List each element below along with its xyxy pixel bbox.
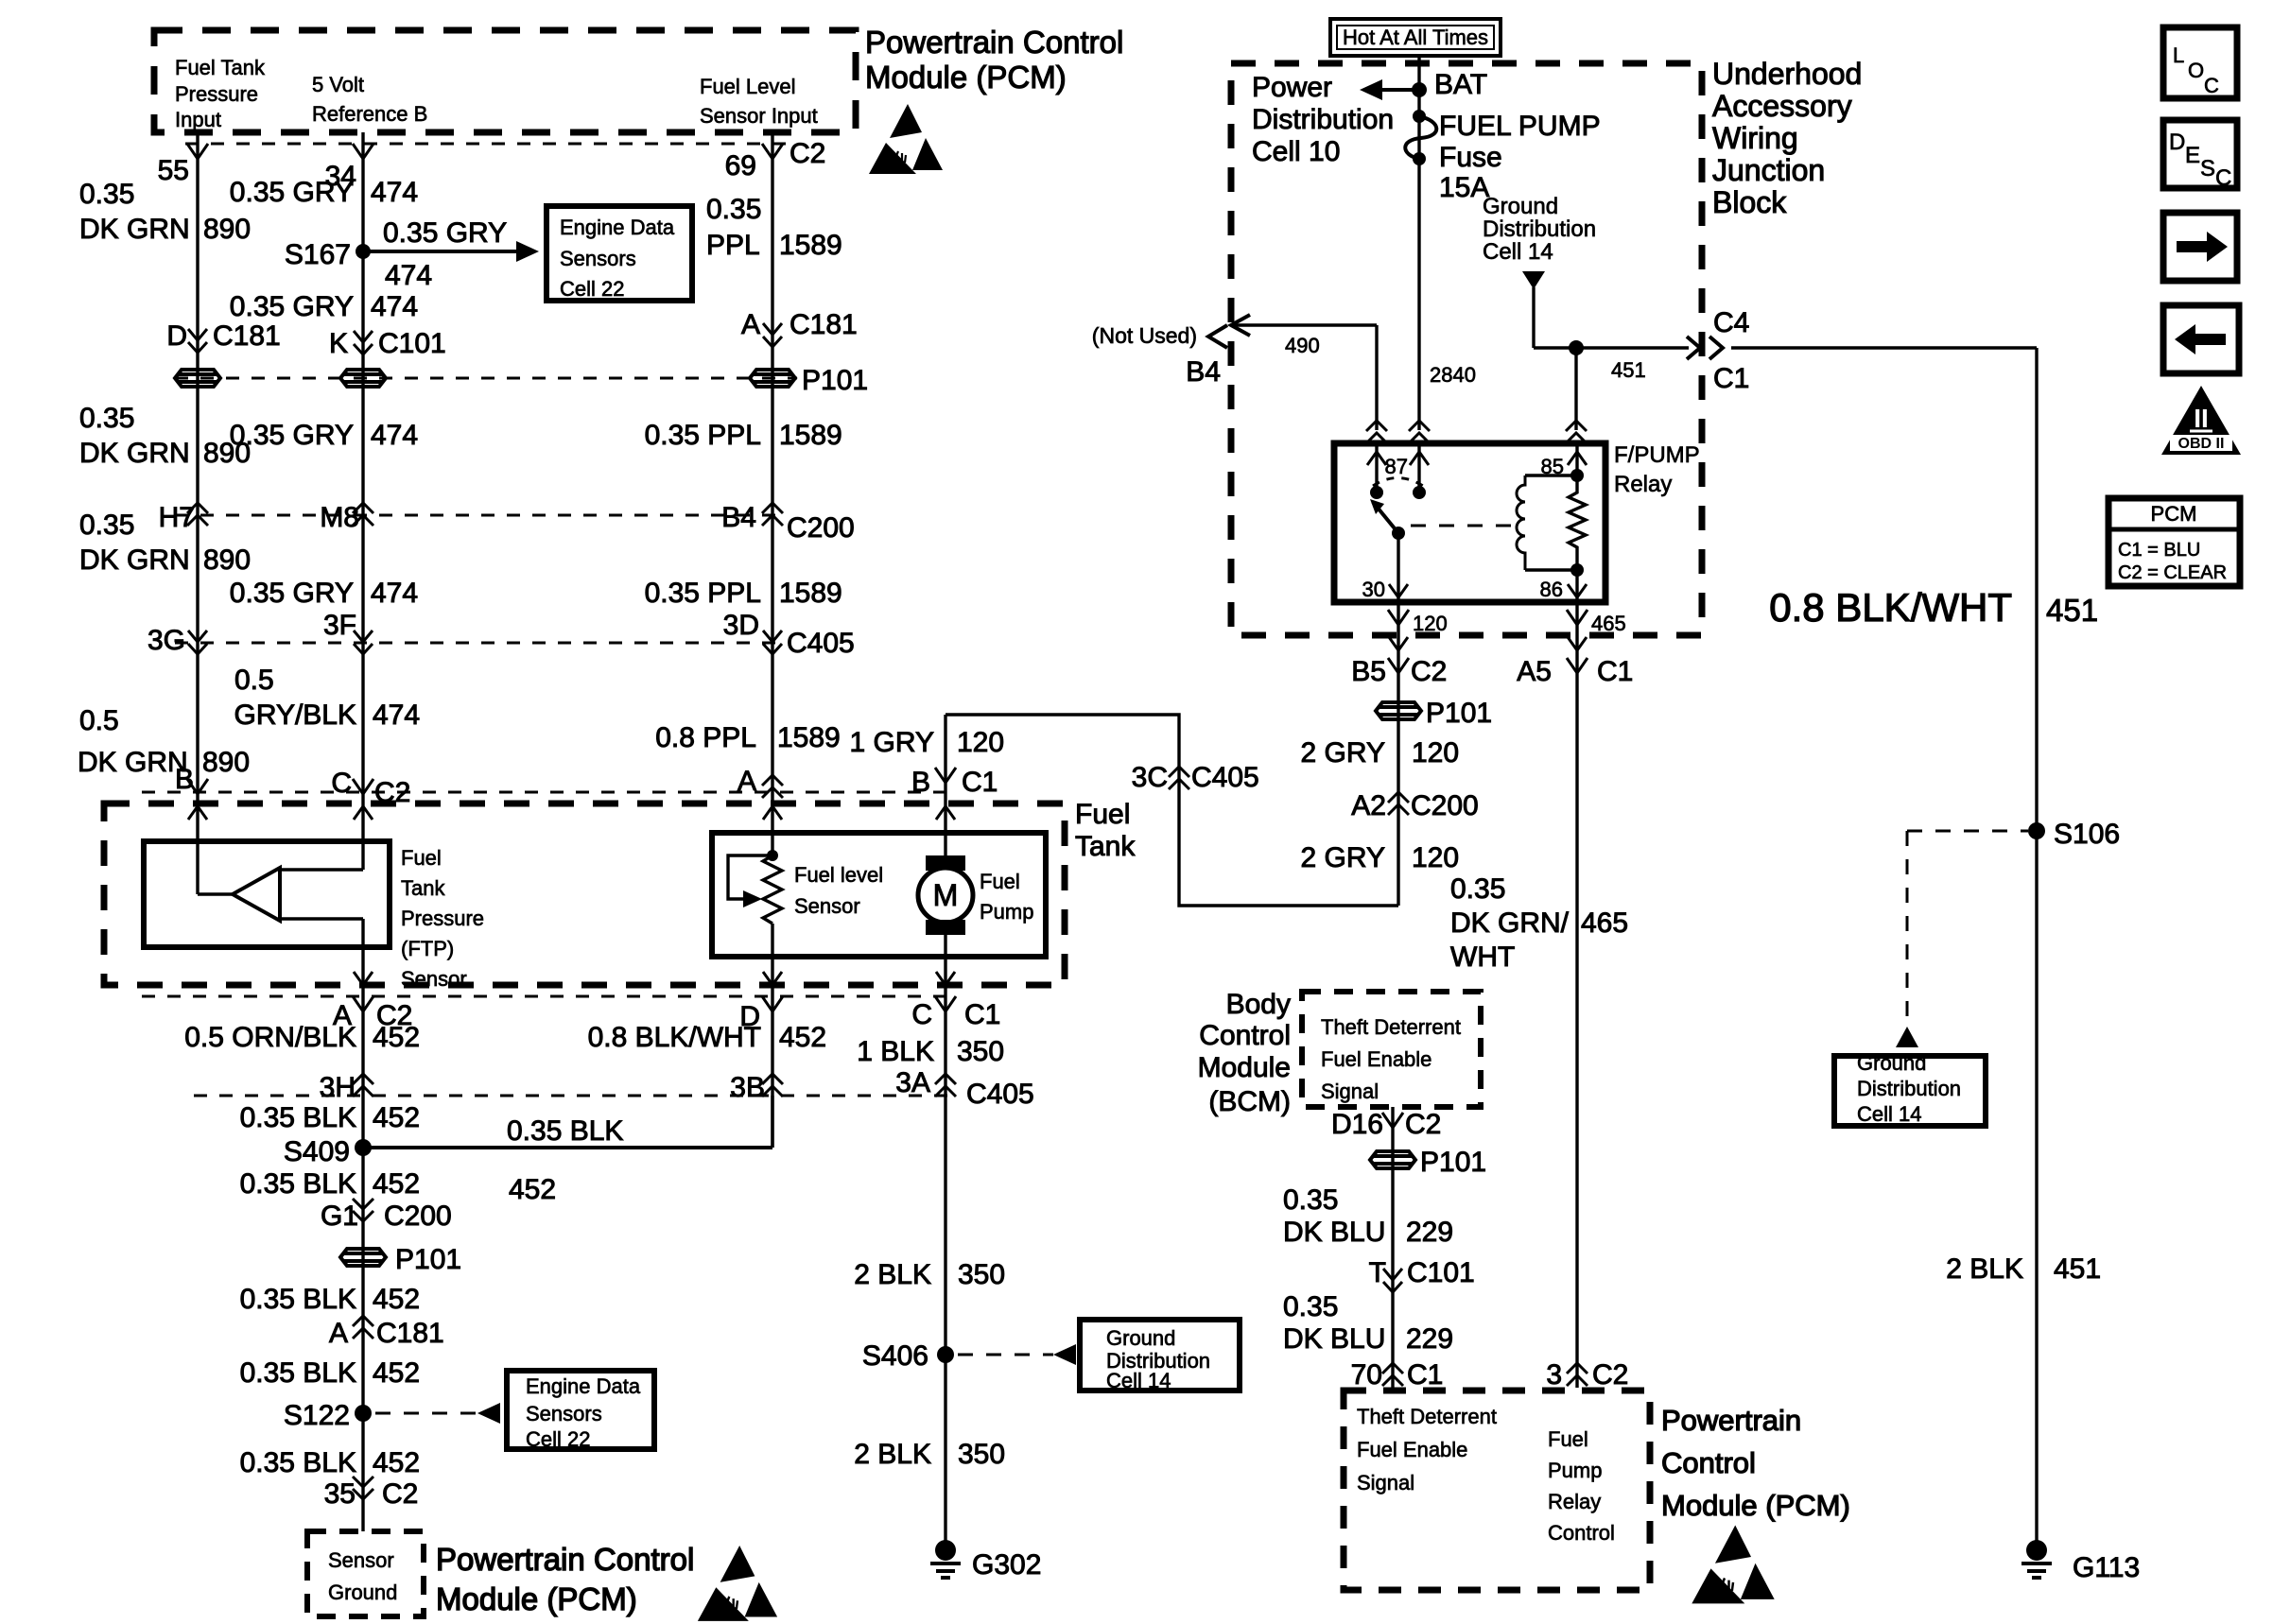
pin B C1 (pump) <box>935 768 956 783</box>
pin A2 C200 <box>1388 792 1409 815</box>
relay contact dashed arc <box>1373 478 1423 487</box>
pin 3H <box>353 1074 373 1097</box>
svg-text:Engine Data: Engine Data <box>526 1374 641 1398</box>
svg-text:M8: M8 <box>320 502 359 533</box>
svg-text:GRY/BLK: GRY/BLK <box>234 700 356 731</box>
svg-text:Engine Data: Engine Data <box>560 216 675 239</box>
svg-text:B4: B4 <box>1186 356 1221 388</box>
svg-text:350: 350 <box>957 1036 1004 1067</box>
svg-text:452: 452 <box>373 1357 420 1389</box>
svg-text:C2: C2 <box>1405 1109 1441 1140</box>
svg-text:0.5 ORN/BLK: 0.5 ORN/BLK <box>184 1022 356 1053</box>
svg-text:C101: C101 <box>378 328 446 359</box>
FUEL PUMP fuse <box>1413 110 1426 123</box>
splice S106 <box>2028 822 2045 839</box>
svg-text:C181: C181 <box>213 320 281 352</box>
svg-text:T: T <box>1369 1257 1386 1288</box>
svg-text:85: 85 <box>1541 455 1564 478</box>
svg-text:Pressure: Pressure <box>401 907 484 930</box>
svg-text:2 BLK: 2 BLK <box>1946 1253 2023 1285</box>
Fuel Tank dashed box <box>104 803 1065 985</box>
svg-text:C1: C1 <box>1713 363 1749 394</box>
svg-text:451: 451 <box>2046 593 2098 628</box>
splice S409 branch <box>363 1146 772 1149</box>
svg-text:55: 55 <box>158 155 189 186</box>
svg-text:87: 87 <box>1385 455 1408 478</box>
BCM Theft Deterrent dashed box <box>1302 992 1481 1107</box>
FTP sensor box <box>144 841 390 947</box>
svg-text:Control: Control <box>1661 1446 1756 1479</box>
pin C C1 <box>935 996 956 1011</box>
wire 474 GRY (5V reference) <box>361 132 364 870</box>
wire theft deterrent signal <box>1391 1107 1394 1388</box>
svg-text:C: C <box>331 768 352 799</box>
svg-text:120: 120 <box>1412 842 1459 873</box>
svg-text:Distribution: Distribution <box>1252 104 1394 135</box>
svg-text:2840: 2840 <box>1430 363 1476 387</box>
svg-text:30: 30 <box>1362 578 1385 601</box>
PCM bottom dashed box <box>1344 1391 1650 1590</box>
pin 3B <box>762 1074 783 1097</box>
arrow to Power Distribution <box>1380 88 1419 92</box>
svg-text:Cell 22: Cell 22 <box>526 1427 590 1451</box>
svg-text:Cell 14: Cell 14 <box>1483 239 1553 265</box>
svg-text:0.8 BLK/WHT: 0.8 BLK/WHT <box>1769 585 2012 630</box>
svg-text:Pump: Pump <box>980 900 1033 924</box>
svg-text:Cell 10: Cell 10 <box>1252 136 1340 167</box>
svg-text:0.35 GRY: 0.35 GRY <box>230 420 354 451</box>
svg-text:0.35 BLK: 0.35 BLK <box>240 1102 356 1133</box>
svg-text:Power: Power <box>1252 72 1332 103</box>
svg-text:Powertrain Control: Powertrain Control <box>865 25 1123 60</box>
P101 grommet relay feed <box>1376 702 1421 719</box>
svg-text:Fuel: Fuel <box>1075 799 1130 830</box>
svg-text:350: 350 <box>958 1439 1005 1470</box>
svg-text:0.35 GRY: 0.35 GRY <box>230 578 354 609</box>
ground distribution triangle <box>1522 271 1545 289</box>
relay coil <box>1517 475 1525 570</box>
svg-text:WHT: WHT <box>1450 942 1515 973</box>
svg-text:2 GRY: 2 GRY <box>1301 737 1386 769</box>
pump feed wire route <box>946 715 1398 906</box>
splice S167 <box>356 244 371 259</box>
svg-text:C200: C200 <box>787 512 855 544</box>
svg-text:C405: C405 <box>1191 762 1259 793</box>
svg-text:120: 120 <box>1412 737 1459 769</box>
svg-text:C2: C2 <box>1592 1359 1628 1391</box>
svg-text:Ground: Ground <box>1857 1051 1926 1075</box>
svg-text:Sensor: Sensor <box>794 894 860 918</box>
svg-text:0.35 GRY: 0.35 GRY <box>230 291 354 322</box>
svg-text:B5: B5 <box>1351 656 1386 687</box>
svg-text:5 Volt: 5 Volt <box>312 73 364 96</box>
pin A C181 bottom <box>353 1316 373 1339</box>
svg-text:Sensor: Sensor <box>328 1548 394 1572</box>
Underhood Accessory Wiring Junction Block dashed box <box>1231 63 1702 635</box>
svg-text:Fuel: Fuel <box>401 846 442 870</box>
svg-text:0.35 BLK: 0.35 BLK <box>240 1168 356 1200</box>
svg-text:Block: Block <box>1712 185 1787 219</box>
svg-text:Fuse: Fuse <box>1439 142 1502 173</box>
svg-text:0.5: 0.5 <box>234 665 274 696</box>
svg-text:C4: C4 <box>1713 307 1749 338</box>
wire 490 to relay 87 <box>1235 323 1377 326</box>
svg-text:Fuel level: Fuel level <box>794 863 883 887</box>
P101 dashed grommet line <box>175 377 797 380</box>
svg-text:Pressure: Pressure <box>175 82 258 106</box>
svg-text:A5: A5 <box>1517 656 1552 687</box>
svg-text:DK GRN: DK GRN <box>78 747 188 778</box>
P101 grommet bottom <box>340 1249 386 1266</box>
svg-text:G302: G302 <box>972 1549 1041 1581</box>
svg-text:350: 350 <box>958 1259 1005 1290</box>
wire BAT fuse feed <box>1417 54 1420 430</box>
svg-text:Theft Deterrent: Theft Deterrent <box>1321 1015 1461 1039</box>
svg-text:S406: S406 <box>862 1340 928 1372</box>
ground G113 <box>2026 1540 2047 1561</box>
svg-text:L: L <box>2173 43 2184 67</box>
svg-text:P101: P101 <box>395 1244 461 1275</box>
tank exit arrows <box>354 972 373 985</box>
svg-text:0.35: 0.35 <box>706 194 761 225</box>
pin T C101 <box>1383 1269 1402 1292</box>
svg-text:229: 229 <box>1406 1323 1453 1355</box>
svg-text:0.35: 0.35 <box>1450 873 1505 905</box>
DESC legend box <box>2163 120 2237 188</box>
svg-text:474: 474 <box>373 700 420 731</box>
svg-text:Powertrain: Powertrain <box>1661 1404 1801 1437</box>
pin G1 C200 <box>353 1199 373 1221</box>
svg-text:2 GRY: 2 GRY <box>1301 842 1386 873</box>
pin M8 <box>353 503 373 526</box>
svg-text:C: C <box>911 999 932 1030</box>
Engine Data Sensors Cell 22 box (top) <box>547 206 692 301</box>
svg-text:0.35: 0.35 <box>79 403 134 434</box>
svg-text:0.35 BLK: 0.35 BLK <box>507 1115 623 1147</box>
svg-text:3C: 3C <box>1132 762 1168 793</box>
svg-text:Ground: Ground <box>1483 194 1558 219</box>
svg-text:0.35 PPL: 0.35 PPL <box>645 578 761 609</box>
Hot At All Times box <box>1330 19 1501 56</box>
svg-text:Cell 14: Cell 14 <box>1106 1369 1171 1392</box>
svg-text:1589: 1589 <box>779 420 842 451</box>
svg-text:(Not Used): (Not Used) <box>1092 323 1197 348</box>
svg-text:S167: S167 <box>285 239 351 270</box>
pin A5 C1 <box>1567 658 1588 673</box>
svg-text:69: 69 <box>725 150 756 181</box>
svg-text:452: 452 <box>373 1168 420 1200</box>
svg-text:Sensors: Sensors <box>560 247 636 270</box>
svg-text:0.35: 0.35 <box>1283 1291 1338 1322</box>
relay pin 85 <box>1575 443 1578 475</box>
BAT junction <box>1412 82 1427 97</box>
svg-text:890: 890 <box>203 214 251 245</box>
svg-text:452: 452 <box>373 1447 420 1478</box>
svg-text:D16: D16 <box>1331 1109 1383 1140</box>
svg-text:70: 70 <box>1351 1359 1382 1391</box>
svg-text:P101: P101 <box>802 365 868 396</box>
wire 890 DK GRN (FTP signal) <box>196 132 199 894</box>
pin 34 <box>353 144 373 159</box>
svg-text:0.35: 0.35 <box>79 510 134 541</box>
svg-text:Input: Input <box>175 108 221 131</box>
svg-text:0.35 BLK: 0.35 BLK <box>240 1284 356 1315</box>
svg-text:F/PUMP: F/PUMP <box>1614 442 1700 468</box>
svg-text:Fuel Enable: Fuel Enable <box>1357 1438 1467 1461</box>
relay pin 86 output <box>1575 602 1578 1388</box>
svg-text:452: 452 <box>509 1174 556 1205</box>
pin H7 <box>187 503 208 526</box>
svg-text:DK BLU: DK BLU <box>1283 1217 1385 1248</box>
svg-text:C2: C2 <box>1411 656 1447 687</box>
svg-text:C1: C1 <box>962 767 998 798</box>
ESD symbol bottom right <box>1692 1525 1774 1603</box>
svg-text:474: 474 <box>371 177 418 208</box>
svg-text:Body: Body <box>1226 989 1291 1020</box>
svg-text:Tank: Tank <box>401 876 445 900</box>
svg-text:C181: C181 <box>376 1318 444 1349</box>
svg-text:Signal: Signal <box>1321 1080 1379 1103</box>
ground G302 <box>935 1540 956 1561</box>
svg-text:474: 474 <box>371 420 418 451</box>
svg-text:120: 120 <box>1413 612 1448 635</box>
svg-text:Underhood: Underhood <box>1712 57 1862 91</box>
svg-text:452: 452 <box>373 1022 420 1053</box>
pin 3A C405 <box>935 1074 956 1097</box>
svg-text:Cell 22: Cell 22 <box>560 277 624 301</box>
svg-text:1 GRY: 1 GRY <box>850 727 935 758</box>
splice S406 <box>937 1346 954 1363</box>
svg-text:B4: B4 <box>721 502 756 533</box>
svg-text:Pump: Pump <box>1548 1459 1602 1482</box>
svg-text:3: 3 <box>1546 1359 1562 1391</box>
svg-text:Junction: Junction <box>1712 153 1825 187</box>
ESD symbol bottom left <box>698 1546 777 1621</box>
svg-text:C405: C405 <box>966 1079 1034 1110</box>
svg-text:G113: G113 <box>2073 1552 2140 1583</box>
svg-text:3B: 3B <box>730 1072 765 1103</box>
svg-text:II: II <box>2194 404 2209 433</box>
svg-text:3F: 3F <box>323 610 356 641</box>
wire fuel level sensor lower <box>771 924 773 1148</box>
svg-text:D: D <box>166 320 187 352</box>
Ground Distribution Cell 14 box (right) <box>1834 1056 1986 1126</box>
svg-text:C1: C1 <box>1407 1359 1443 1391</box>
svg-text:Distribution: Distribution <box>1483 216 1596 242</box>
svg-text:120: 120 <box>957 727 1004 758</box>
svg-text:S106: S106 <box>2054 819 2120 850</box>
svg-text:Distribution: Distribution <box>1857 1077 1961 1100</box>
arrow right legend box <box>2163 213 2237 281</box>
svg-text:Fuel Level: Fuel Level <box>700 75 796 98</box>
svg-text:G1: G1 <box>321 1201 358 1232</box>
fuel sender unit box <box>712 833 1046 957</box>
wire 451 junction to C4 <box>1534 346 1689 349</box>
F/PUMP Relay box <box>1334 443 1605 602</box>
svg-text:C: C <box>2215 165 2231 191</box>
pin A C2 <box>353 996 373 1011</box>
splice S122 <box>355 1405 372 1422</box>
svg-text:M: M <box>933 878 959 912</box>
svg-text:0.8 PPL: 0.8 PPL <box>655 722 756 753</box>
svg-text:DK GRN: DK GRN <box>79 214 190 245</box>
svg-text:Tank: Tank <box>1075 831 1136 862</box>
relay pin 30 wire <box>1397 533 1399 602</box>
svg-text:A: A <box>741 309 760 340</box>
svg-text:C1 = BLU: C1 = BLU <box>2118 540 2200 561</box>
pin 3D C405 <box>763 631 782 654</box>
svg-text:Sensor Input: Sensor Input <box>700 104 818 128</box>
tank entry arrows <box>188 806 207 820</box>
svg-text:Fuel: Fuel <box>980 870 1020 893</box>
fuel level sensor wiper loop <box>728 855 772 899</box>
FTP sensor triangle <box>233 868 280 921</box>
svg-text:Module: Module <box>1198 1052 1291 1083</box>
svg-text:465: 465 <box>1581 907 1628 939</box>
svg-text:(FTP): (FTP) <box>401 937 454 960</box>
svg-text:K: K <box>329 328 348 359</box>
svg-text:Sensor: Sensor <box>401 967 467 991</box>
svg-text:0.35 GRY: 0.35 GRY <box>383 217 507 249</box>
svg-text:FUEL PUMP: FUEL PUMP <box>1439 111 1601 142</box>
svg-text:Module (PCM): Module (PCM) <box>1661 1489 1850 1522</box>
svg-text:474: 474 <box>385 260 432 291</box>
OBD II triangle <box>2161 386 2241 455</box>
svg-text:PPL: PPL <box>706 230 760 261</box>
svg-text:S122: S122 <box>284 1400 350 1431</box>
svg-text:C2: C2 <box>382 1478 418 1510</box>
svg-text:P101: P101 <box>1426 698 1492 729</box>
svg-text:Fuel Enable: Fuel Enable <box>1321 1047 1431 1071</box>
pin 70 C1 <box>1382 1363 1403 1386</box>
svg-text:DK GRN/: DK GRN/ <box>1450 907 1570 939</box>
svg-text:0.35 BLK: 0.35 BLK <box>240 1357 356 1389</box>
svg-text:Relay: Relay <box>1548 1490 1601 1513</box>
wire 451 BLK/WHT to G113 <box>1731 346 2037 349</box>
svg-text:D: D <box>2169 130 2185 155</box>
pin D <box>762 996 783 1011</box>
svg-text:Relay: Relay <box>1614 472 1672 497</box>
svg-text:3G: 3G <box>147 625 185 656</box>
pin 55 <box>187 144 208 159</box>
connector C2 dashed line <box>185 143 788 146</box>
connector K C101 <box>354 331 373 354</box>
P101 grommet wire3 <box>750 370 795 387</box>
svg-text:Signal: Signal <box>1357 1471 1414 1494</box>
svg-text:Reference B: Reference B <box>312 102 427 126</box>
svg-text:Cell 14: Cell 14 <box>1857 1102 1921 1126</box>
svg-text:B: B <box>175 764 194 795</box>
pin B4 C200 <box>762 503 783 526</box>
svg-text:Module (PCM): Module (PCM) <box>436 1581 637 1616</box>
svg-text:Accessory: Accessory <box>1712 89 1852 123</box>
svg-text:S409: S409 <box>284 1136 350 1167</box>
svg-text:PCM: PCM <box>2151 502 2197 526</box>
pin B5 C2 <box>1388 658 1409 673</box>
C4 C1 crossover arrows <box>1687 337 1700 359</box>
sensor connector dashed line <box>142 791 957 794</box>
svg-text:C200: C200 <box>1411 790 1479 821</box>
fuel pump motor <box>944 715 946 859</box>
svg-text:0.35 PPL: 0.35 PPL <box>645 420 761 451</box>
svg-text:1589: 1589 <box>779 230 842 261</box>
svg-text:E: E <box>2185 143 2200 168</box>
svg-text:490: 490 <box>1285 334 1320 357</box>
svg-text:86: 86 <box>1540 578 1563 601</box>
Ground Distribution Cell 14 box (middle) <box>1080 1320 1240 1391</box>
fuel level sensor resistor <box>763 855 782 924</box>
svg-text:1589: 1589 <box>777 722 841 753</box>
pin D16 C2 <box>1382 1113 1403 1128</box>
svg-text:P101: P101 <box>1420 1147 1486 1178</box>
Sensor Ground box <box>307 1531 424 1616</box>
pin 3 C2 <box>1567 1363 1588 1386</box>
svg-text:B: B <box>911 767 930 798</box>
pin 69 <box>762 144 783 159</box>
sensor connector dashed line bottom <box>142 995 957 998</box>
svg-text:3D: 3D <box>723 610 759 641</box>
relay pin 86 <box>1575 570 1578 602</box>
svg-text:C2: C2 <box>789 138 825 169</box>
svg-text:C1: C1 <box>1597 656 1633 687</box>
svg-text:452: 452 <box>373 1284 420 1315</box>
svg-text:C2 = CLEAR: C2 = CLEAR <box>2118 562 2227 583</box>
P101 grommet wire1 <box>175 370 220 387</box>
svg-text:451: 451 <box>1611 358 1646 382</box>
arrow left legend box <box>2163 305 2239 373</box>
svg-text:H7: H7 <box>159 502 195 533</box>
svg-text:1589: 1589 <box>779 578 842 609</box>
svg-text:Theft Deterrent: Theft Deterrent <box>1357 1405 1497 1428</box>
Engine Data Sensors Cell 22 box (bottom) <box>507 1371 654 1449</box>
relay switch blade <box>1373 502 1398 533</box>
svg-text:474: 474 <box>371 578 418 609</box>
PCM connector box (top left) <box>154 30 856 132</box>
svg-text:465: 465 <box>1591 612 1626 635</box>
svg-text:1 BLK: 1 BLK <box>857 1036 934 1067</box>
connector D C181 <box>188 329 207 353</box>
pin 3F <box>354 631 373 654</box>
svg-text:35: 35 <box>324 1478 356 1510</box>
LOC legend box <box>2163 27 2237 98</box>
svg-text:2 BLK: 2 BLK <box>854 1439 931 1470</box>
svg-text:0.35 BLK: 0.35 BLK <box>240 1447 356 1478</box>
pin 3G <box>188 631 207 654</box>
svg-text:DK BLU: DK BLU <box>1283 1323 1385 1355</box>
svg-text:2 BLK: 2 BLK <box>854 1259 931 1290</box>
ESD symbol top <box>869 104 943 174</box>
svg-text:452: 452 <box>373 1102 420 1133</box>
svg-text:DK GRN: DK GRN <box>79 438 190 469</box>
svg-text:Control: Control <box>1548 1521 1615 1545</box>
svg-text:0.5: 0.5 <box>79 705 119 736</box>
svg-text:Wiring: Wiring <box>1712 121 1798 155</box>
svg-text:Hot At All Times: Hot At All Times <box>1343 26 1488 49</box>
svg-text:3H: 3H <box>320 1072 356 1103</box>
P101 grommet wire2 <box>340 370 386 387</box>
svg-text:451: 451 <box>2054 1253 2101 1285</box>
relay coil resistor <box>1569 475 1586 570</box>
svg-text:OBD II: OBD II <box>2178 436 2225 452</box>
relay pin chevrons <box>1366 421 1387 443</box>
svg-text:Sensors: Sensors <box>526 1402 602 1425</box>
svg-text:Ground: Ground <box>328 1581 397 1604</box>
svg-text:Ground: Ground <box>1106 1326 1175 1350</box>
svg-text:DK GRN: DK GRN <box>79 544 190 576</box>
svg-text:0.8 BLK/WHT: 0.8 BLK/WHT <box>588 1022 761 1053</box>
svg-text:C200: C200 <box>384 1201 452 1232</box>
svg-text:0.35: 0.35 <box>79 179 134 210</box>
